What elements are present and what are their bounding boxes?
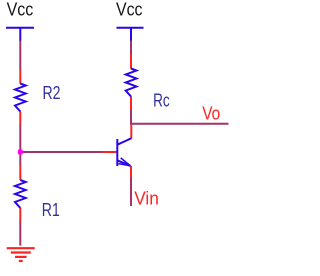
svg-text:Rc: Rc xyxy=(153,90,170,110)
svg-text:Vcc: Vcc xyxy=(116,0,143,20)
svg-text:R1: R1 xyxy=(42,200,60,220)
svg-text:R2: R2 xyxy=(43,83,61,103)
svg-text:Vin: Vin xyxy=(134,188,159,208)
svg-text:Vcc: Vcc xyxy=(7,0,34,20)
svg-text:Vo: Vo xyxy=(202,104,220,124)
